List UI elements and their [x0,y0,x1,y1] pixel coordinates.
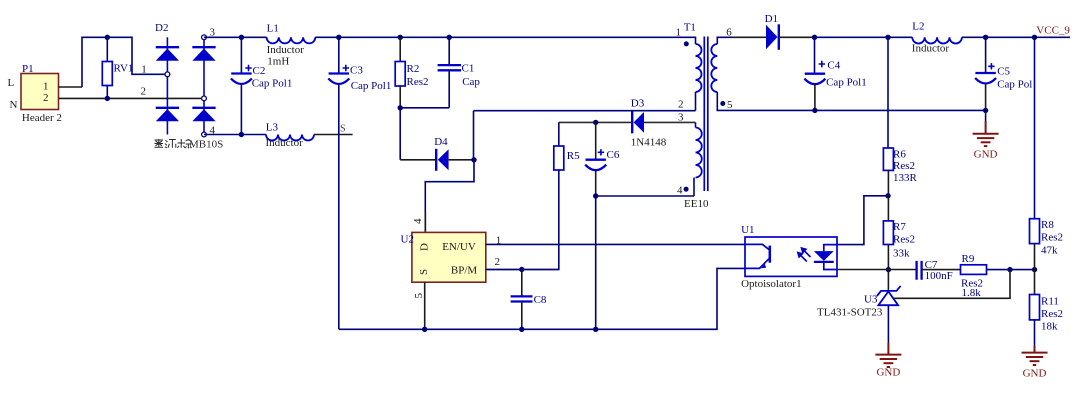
wire D3 to pin3 [644,121,696,123]
svg-text:2: 2 [678,98,684,110]
junction R6 R7 node [885,193,890,198]
svg-text:33k: 33k [893,248,910,260]
svg-text:C6: C6 [607,149,620,161]
wire R11 bottom [1034,320,1036,346]
junction feedback node [886,267,891,272]
wire P1 pin1 to bridge [82,37,165,87]
svg-text:4: 4 [412,218,424,224]
junction C2 bottom [239,132,244,137]
wire aux top bend [695,122,697,127]
wire R7 top lead [887,196,889,221]
svg-text:R9: R9 [962,253,975,265]
optoisolator transistor [745,244,770,268]
svg-text:L: L [8,77,15,89]
shunt regulator U3 TL431 [877,286,901,305]
svg-text:GND: GND [1023,368,1047,380]
wire secondary return rail [717,109,986,111]
transformer primary winding [696,44,702,92]
resistor R11 [1030,295,1040,320]
optoisolator LED [814,245,837,270]
capacitor C4 [804,74,825,85]
wire C1 bottom lead [448,70,450,108]
svg-text:2: 2 [43,92,49,104]
svg-text:D3: D3 [631,98,645,110]
capacitor C7 [917,261,922,280]
wire TL431 anode [887,305,889,343]
svg-text:2: 2 [495,256,501,268]
svg-text:Res2: Res2 [407,76,429,88]
wire U2 pin5 [424,282,426,329]
bridge pin 1 node [165,72,170,77]
svg-text:C2: C2 [253,65,266,77]
junction RV1 top [105,35,110,40]
svg-text:D4: D4 [434,136,448,148]
wire VCC rail [815,36,913,38]
ground symbol R11 [1022,353,1048,365]
wire C5 bottom lead [985,84,987,111]
wire U2 pin4 stub [424,212,426,232]
wire U2 pin1 to opto [486,243,745,245]
svg-text:5: 5 [413,293,425,299]
svg-text:Optoisolator1: Optoisolator1 [741,278,802,290]
svg-text:MB10S: MB10S [189,139,223,151]
wire GND stem secondary [985,110,987,121]
svg-text:1N4148: 1N4148 [631,137,667,149]
bridge pin 2 node [202,96,207,101]
diode D1 [766,24,779,50]
plus sign C2 [245,65,251,71]
diode D3 [632,112,644,134]
svg-text:R7: R7 [893,221,906,233]
svg-text:2: 2 [141,86,147,98]
svg-text:Cap Pol: Cap Pol [997,79,1032,91]
optoisolator U1 body [745,237,837,276]
svg-text:S: S [418,269,430,275]
wire VCC to R8 [1034,37,1036,218]
wire drain net [425,111,474,233]
wire C6 bottom lead [595,170,597,196]
svg-text:1: 1 [141,64,147,76]
junction R6 top [885,35,890,40]
svg-text:T1: T1 [684,21,696,33]
svg-text:VCC_9: VCC_9 [1036,25,1070,37]
junction C8 bottom [519,327,524,332]
svg-text:EE10: EE10 [684,198,709,210]
IC U2 body [412,232,486,282]
svg-text:18k: 18k [1041,321,1058,333]
resistor R7 [883,221,893,245]
wire primary pin2 [474,110,696,112]
svg-text:R8: R8 [1041,219,1054,231]
wire primary bottom lead [695,92,697,111]
svg-text:L2: L2 [912,20,924,32]
wire C8 top lead [521,270,523,297]
inductor L3 [266,135,314,141]
wire secondary bottom lead [716,92,718,110]
bridge diode bottom-right [192,108,215,122]
svg-text:1: 1 [43,81,49,93]
wire L2 to VCC [962,36,1070,38]
wire RV1 top lead [106,37,108,61]
wire opto cathode to C7 [837,269,917,271]
wire R5 top lead [558,122,560,146]
svg-text:D2: D2 [155,22,168,34]
polarity dot pin4 [684,187,689,192]
svg-text:R11: R11 [1041,296,1059,308]
wire snubber node down to D4 [399,108,401,160]
svg-text:100nF: 100nF [925,270,953,282]
wire C3 to bottom rail [338,84,340,329]
svg-text:Header 2: Header 2 [22,112,62,124]
plus sign C5 [988,63,994,69]
wire bridge node4 to L3 [204,134,266,136]
wire R2 bottom lead [399,86,401,108]
wire bridge node3 to L1 [204,36,267,38]
svg-text:Cap Pol1: Cap Pol1 [351,80,392,92]
svg-text:L3: L3 [266,122,279,134]
wire TL431 cathode [887,270,889,291]
resistor R6 [883,148,893,170]
diode D4 [436,149,448,171]
wire C5 top lead [985,37,987,73]
svg-text:RV1: RV1 [114,63,134,75]
bridge left column [166,37,168,134]
bridge diode bottom-left [156,108,179,122]
svg-text:C8: C8 [534,294,547,306]
plus sign C6 [598,149,604,155]
wire aux pin4 run [596,195,694,197]
capacitor C5 [975,73,996,84]
svg-text:P1: P1 [22,63,34,75]
wire R7 bottom lead [887,245,889,270]
svg-text:Inductor: Inductor [266,137,304,149]
plus sign C4 [819,61,825,67]
svg-text:Inductor: Inductor [267,44,305,56]
capacitor C3 [328,74,349,85]
varistor RV1 [102,62,112,86]
svg-text:Cap Pol1: Cap Pol1 [826,77,867,89]
wire pin3 to R5 [559,121,632,123]
bridge diode top-left [156,47,179,61]
svg-text:Cap: Cap [462,76,480,88]
junction aux-return on rail [593,327,598,332]
svg-text:D: D [419,243,431,251]
svg-text:1mH: 1mH [267,56,289,68]
wire aux node to bottom rail [595,196,597,329]
capacitor C6 [585,160,606,171]
wire C4 top lead [814,37,816,73]
transformer secondary winding [711,44,717,92]
svg-text:Res2: Res2 [1041,308,1063,320]
resistor R5 [554,146,564,170]
wire TL431 ref [893,270,1010,299]
svg-text:N: N [10,99,18,111]
resistor R8 [1030,219,1040,244]
capacitor C8 [511,296,533,301]
svg-text:C5: C5 [997,66,1010,78]
junction C8 top [519,267,524,272]
wire C1 top lead [448,37,450,65]
wire T1 pin6 to D1 [732,36,766,38]
wire U2 pin2 [486,269,559,271]
junction U2 pin5 on rail [422,327,427,332]
svg-text:1.8k: 1.8k [962,287,982,299]
wire D4 cathode side [400,159,436,161]
wire R2 top lead [399,37,401,61]
pin stub P1-1 [59,86,83,88]
junction R2 top [398,35,403,40]
junction C5 bottom [983,108,988,113]
wire R6R7 node to opto anode [837,196,888,245]
svg-text:U2: U2 [401,234,414,246]
capacitor C1 [438,65,462,70]
svg-text:3: 3 [678,111,684,123]
wire GND stem R11 red [1034,346,1036,353]
label MB10S bridge caption [155,139,192,148]
svg-text:133R: 133R [893,172,918,184]
svg-text:U3: U3 [864,294,878,306]
wire R8 to R11 [1034,244,1036,295]
polarity dot pin1 [684,41,689,46]
junction C4 top [812,35,817,40]
svg-text:L1: L1 [267,22,279,34]
capacitor C2 [231,74,252,85]
wire C6 top lead [595,122,597,159]
svg-text:47k: 47k [1041,245,1058,257]
inductor L1 [267,37,316,43]
svg-text:Res2: Res2 [893,160,915,172]
svg-text:C3: C3 [350,65,363,77]
inductor L2 [912,37,962,43]
junction R9 divider [1007,267,1012,272]
junction C3 top [336,35,341,40]
svg-text:Cap Pol1: Cap Pol1 [252,78,293,90]
svg-text:Res2: Res2 [893,234,915,246]
svg-text:TL431-SOT23: TL431-SOT23 [817,307,883,319]
svg-text:5: 5 [727,99,733,111]
svg-text:Inductor: Inductor [912,43,950,55]
wire R6 bottom [887,170,889,195]
junction C2 top [239,35,244,40]
svg-text:EN/UV: EN/UV [442,241,476,253]
resistor R9 [961,265,987,275]
svg-text:4: 4 [677,184,683,196]
ground symbol TL431 [875,355,901,367]
junction aux return [593,193,598,198]
svg-text:GND: GND [974,149,998,161]
svg-text:C1: C1 [462,62,475,74]
junction RV1 bottom [105,96,110,101]
wire VCC to R6 [887,37,889,148]
wire primary return rail [339,268,745,329]
svg-text:C4: C4 [827,60,840,72]
svg-text:S: S [340,124,346,135]
wire C2 bottom lead [240,84,242,135]
wire snubber node to C1 [400,107,449,109]
svg-text:R5: R5 [567,150,580,162]
junction R8 top rail [1032,35,1037,40]
svg-text:GND: GND [876,367,900,379]
wire C3 top lead [338,37,340,73]
ground symbol secondary [973,134,999,146]
wire C8 bottom lead [521,302,523,330]
junction C4 bottom [812,108,817,113]
wire aux bottom lead [693,178,695,197]
connector P1 body [21,74,59,110]
junction divider mid [1032,267,1037,272]
transformer core [704,37,708,192]
wire RV1 bottom lead [106,86,108,99]
bridge diode top-right [192,47,215,61]
bridge pin 4 node [202,132,207,137]
wire D4 anode side [449,159,474,161]
svg-text:Res2: Res2 [1041,232,1063,244]
wire L1 to transformer pin1 [315,37,695,44]
svg-text:D1: D1 [765,13,778,25]
wire C7 to R9 [922,269,961,271]
bridge pin 3 node [202,35,207,40]
pin stub P1-2 [59,97,203,99]
wire L3 to net S stub [314,134,353,136]
svg-text:1: 1 [676,27,682,39]
wire C2 top lead [240,37,242,73]
svg-text:R6: R6 [893,149,906,161]
junction drain node [471,157,476,162]
wire GND stem TL431 red [887,343,889,355]
wire D1 to C4 node [779,36,815,38]
wire R9 to divider [987,269,1035,271]
wire secondary top bend [717,37,732,44]
polarity dot pin5 [720,101,725,106]
svg-text:R2: R2 [407,63,420,75]
wire R5 bottom to U2 pin2 [486,170,559,270]
svg-text:U1: U1 [741,224,754,236]
junction snubber node [398,105,403,110]
plus sign C3 [343,65,349,71]
junction C6 top [593,120,598,125]
junction C1 top [447,35,452,40]
resistor R2 [395,62,405,87]
wire C4 bottom lead [814,84,816,110]
svg-text:BP/M: BP/M [451,264,478,276]
transformer aux winding [696,128,702,178]
junction C5 top [983,35,988,40]
wire GND stem secondary red [985,121,987,134]
optoisolator light arrows [798,248,811,262]
bridge right column [203,37,205,134]
